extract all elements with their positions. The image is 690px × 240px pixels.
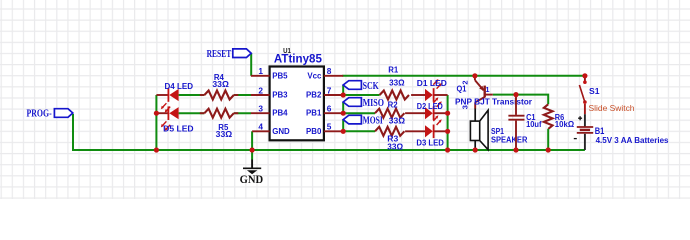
svg-text:D3 LED: D3 LED bbox=[416, 139, 444, 148]
svg-text:PB5: PB5 bbox=[272, 71, 288, 80]
svg-text:ATtiny85: ATtiny85 bbox=[274, 52, 322, 66]
svg-text:8: 8 bbox=[327, 66, 332, 76]
svg-text:D4 LED: D4 LED bbox=[165, 82, 194, 91]
svg-text:33Ω: 33Ω bbox=[389, 117, 406, 126]
svg-text:SPEAKER: SPEAKER bbox=[491, 136, 528, 145]
svg-text:PB2: PB2 bbox=[306, 91, 322, 100]
svg-text:Slide Switch: Slide Switch bbox=[589, 104, 635, 113]
svg-text:PB1: PB1 bbox=[306, 109, 322, 118]
svg-text:S1: S1 bbox=[589, 86, 600, 96]
svg-text:SCK: SCK bbox=[363, 81, 379, 92]
svg-text:PB4: PB4 bbox=[272, 109, 288, 118]
svg-text:D5 LED: D5 LED bbox=[163, 124, 194, 133]
svg-text:33Ω: 33Ω bbox=[387, 142, 403, 151]
svg-text:6: 6 bbox=[327, 104, 332, 114]
svg-text:10kΩ: 10kΩ bbox=[555, 120, 575, 129]
svg-text:RESET: RESET bbox=[207, 49, 232, 60]
svg-text:7: 7 bbox=[327, 85, 332, 95]
svg-text:33Ω: 33Ω bbox=[216, 130, 233, 139]
svg-text:R2: R2 bbox=[388, 100, 399, 109]
svg-text:PROG-: PROG- bbox=[27, 109, 52, 120]
svg-text:PB3: PB3 bbox=[272, 91, 288, 100]
svg-text:4.5V 3 AA Batteries: 4.5V 3 AA Batteries bbox=[596, 135, 669, 145]
svg-text:33Ω: 33Ω bbox=[212, 80, 229, 89]
svg-text:D1 LED: D1 LED bbox=[417, 79, 447, 88]
svg-text:Vcc: Vcc bbox=[307, 71, 322, 80]
svg-text:33Ω: 33Ω bbox=[389, 79, 405, 88]
svg-text:R1: R1 bbox=[388, 66, 399, 75]
svg-text:PB0: PB0 bbox=[306, 127, 322, 136]
svg-text:1: 1 bbox=[258, 66, 263, 76]
svg-text:GND: GND bbox=[272, 127, 290, 136]
svg-text:Q1: Q1 bbox=[457, 84, 467, 93]
svg-text:2: 2 bbox=[258, 85, 263, 95]
svg-text:3: 3 bbox=[258, 104, 263, 114]
svg-text:10uf: 10uf bbox=[526, 120, 542, 129]
svg-text:D2 LED: D2 LED bbox=[417, 102, 443, 111]
svg-text:MOSI: MOSI bbox=[363, 115, 383, 126]
svg-text:1: 1 bbox=[485, 85, 489, 94]
svg-text:5: 5 bbox=[327, 122, 332, 132]
svg-text:4: 4 bbox=[258, 122, 263, 132]
svg-text:GND: GND bbox=[240, 172, 264, 186]
svg-text:MISO: MISO bbox=[363, 98, 385, 109]
svg-text:PNP BJT Transistor: PNP BJT Transistor bbox=[455, 98, 533, 107]
